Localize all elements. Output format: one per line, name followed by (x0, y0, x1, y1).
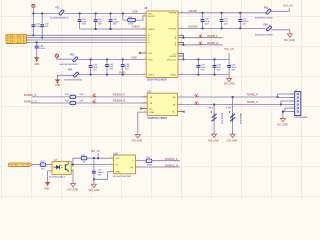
wire RS485C_N (31, 102, 142, 104)
svg-text:GND: GND (149, 112, 154, 114)
capacitor C52 (238, 13, 249, 29)
junction C51 (221, 12, 223, 14)
svg-text:ISOW7841DWER: ISOW7841DWER (147, 79, 167, 82)
wire VISOIN bus (178, 12, 266, 14)
differential pair mark N (left) (93, 100, 97, 104)
wire FB5 to ISO_VS (271, 8, 289, 12)
svg-text:485M1_TX_EN: 485M1_TX_EN (10, 165, 30, 167)
resistor R12 (40, 161, 46, 170)
svg-text:RS485A_P: RS485A_P (113, 94, 126, 97)
junction C52 (239, 12, 241, 14)
resistor R16 branch wire (123, 14, 146, 21)
differential pair mark P (left) (93, 93, 97, 97)
svg-text:50V: 50V (98, 175, 102, 177)
svg-text:GND1: GND1 (148, 75, 155, 77)
wire opto collector (71, 158, 114, 165)
svg-text:4: 4 (144, 58, 145, 60)
junction GISOIN C50 (202, 28, 204, 30)
differential pair mark N (199, 41, 203, 45)
junction GNDIO C42 (95, 28, 97, 30)
svg-text:SN65HVD1785DR: SN65HVD1785DR (147, 117, 167, 120)
capacitor C44 (108, 14, 119, 30)
svg-text:U9: U9 (147, 89, 151, 93)
wire N fanout to pins 3,4 (280, 101, 295, 105)
svg-text:2: 2 (144, 14, 145, 16)
svg-text:ISO_GND: ISO_GND (284, 39, 295, 42)
junction C47 (198, 59, 200, 61)
optocoupler U7 body (49, 159, 71, 179)
svg-text:ISO_VS: ISO_VS (283, 4, 293, 8)
svg-text:TVS2: TVS2 (226, 108, 232, 110)
svg-text:RS485C_P: RS485C_P (165, 158, 178, 161)
capacitor C40 (78, 14, 88, 30)
capacitor C50 (200, 13, 210, 29)
differential pair mark P (right) (195, 94, 199, 98)
svg-text:NC: NC (130, 167, 134, 169)
svg-text:5: 5 (111, 157, 112, 159)
junction R16 branch (122, 13, 124, 15)
junction ISO_VS riser (97, 157, 99, 159)
wire RS485_N from U8 (183, 44, 222, 46)
svg-text:50V: 50V (224, 24, 228, 26)
wire to FB4 (58, 75, 74, 79)
svg-text:FB5: FB5 (264, 7, 269, 9)
junction at VDD stem (33, 13, 35, 15)
svg-text:SMBJ6.0CA: SMBJ6.0CA (239, 113, 242, 125)
svg-text:SMBJ6.0CA: SMBJ6.0CA (221, 113, 224, 125)
svg-text:VISOOUT: VISOOUT (166, 59, 177, 61)
ferrite bead FB4 (64, 70, 82, 82)
resistor R14 (65, 100, 84, 104)
svg-text:ISO_GND: ISO_GND (208, 139, 219, 142)
svg-text:50V: 50V (98, 24, 102, 26)
svg-text:BLM18KG601SN1D: BLM18KG601SN1D (255, 34, 273, 36)
U8 right pin names (166, 13, 177, 77)
ground ISO_GND (top right) (284, 34, 295, 42)
svg-text:25V: 25V (217, 69, 221, 71)
wire U10 GND to ISO_GND (94, 172, 114, 180)
svg-text:GISOIN: GISOIN (188, 25, 197, 29)
svg-text:FB1: FB1 (55, 7, 60, 9)
svg-text:ISO_GND: ISO_GND (89, 189, 100, 192)
wire GND pins 5,6 to ISO_GND (277, 108, 295, 126)
driver U10 body (113, 152, 136, 178)
svg-text:50V: 50V (243, 24, 247, 26)
junction GND2 C47 (198, 74, 200, 76)
opto LED (54, 165, 63, 169)
U9 right pin NC with no-connect (178, 111, 185, 113)
junction C46 (122, 59, 124, 61)
wire VDD bus left (33, 13, 59, 15)
svg-text:10R: 10R (79, 100, 83, 102)
U10 pin names (115, 158, 120, 173)
opto cathode wire to GND (48, 171, 52, 182)
ferrite bead FB2 (60, 55, 78, 66)
capacitor C47 (196, 59, 206, 74)
junction C50 (202, 12, 204, 14)
wire VDD bus (mid) (78, 58, 146, 60)
wire U10 output (136, 160, 147, 162)
ferrite bead FB5 (255, 7, 273, 19)
capacitor C33 (35, 42, 46, 57)
ground ISO_GND (U9) (132, 135, 143, 143)
wire GISOIN bus (178, 27, 265, 29)
resistor R13 (65, 94, 84, 98)
svg-text:RS485_P: RS485_P (247, 94, 258, 97)
svg-text:GNDIO: GNDIO (132, 26, 140, 29)
capacitor C32 (40, 14, 49, 39)
junction GISOIN C51 (221, 28, 223, 30)
svg-text:50V: 50V (113, 24, 117, 26)
svg-text:10K0: 10K0 (128, 24, 134, 26)
capacitor C48 (212, 59, 221, 74)
ferrite bead FB1 (50, 7, 68, 19)
junction row4 C33 (36, 42, 38, 44)
svg-text:U10: U10 (114, 152, 119, 155)
differential pair mark N (right) (195, 101, 199, 105)
svg-text:ISO_GND: ISO_GND (224, 82, 235, 85)
svg-text:BLM18KG601SN1D: BLM18KG601SN1D (60, 64, 78, 66)
svg-text:BLM18KG601SN1D: BLM18KG601SN1D (50, 17, 68, 19)
junction GND C45 (106, 74, 108, 76)
junction C40 (79, 13, 81, 15)
connector J2 body (295, 90, 308, 119)
wire ISO_VS riser (97, 153, 99, 158)
svg-text:2: 2 (111, 170, 112, 172)
wire opto emitter to ISO_GND (67, 170, 78, 191)
wire VDD bus right (64, 13, 146, 15)
capacitor C51 (220, 13, 229, 29)
svg-text:GISOIN: GISOIN (169, 28, 177, 30)
svg-text:GND: GND (55, 84, 61, 87)
svg-text:1: 1 (111, 163, 112, 165)
U8 pin numbers (144, 11, 183, 75)
U8 pin stub OUT with no-connect (139, 52, 146, 54)
junction C45 (106, 59, 108, 61)
U8 right pins Z/B joined (178, 42, 184, 45)
U9 pin numbers (144, 95, 181, 112)
wire R17 to net label (152, 160, 180, 162)
wire port row2 (26, 37, 146, 39)
U8 pin stub GNDIO (141, 28, 147, 30)
wire port row3 (26, 39, 146, 41)
svg-text:RS485C_N: RS485C_N (165, 164, 178, 167)
U8 left pin names (148, 13, 156, 76)
wire GND2 bus (178, 74, 229, 76)
U9 pin stub TB (142, 102, 148, 104)
resistor R17 (146, 157, 152, 166)
wire R15 to U10 (87, 157, 114, 159)
junction GISOIN C52 (239, 28, 241, 30)
wire RS485_N to connector (178, 104, 281, 106)
U9 pin GND wire to ISO_GND (138, 112, 147, 134)
svg-text:ISO_GND: ISO_GND (277, 124, 288, 127)
svg-text:OUT: OUT (148, 53, 153, 55)
svg-text:EL357N(C)(TA)-G: EL357N(C)(TA)-G (49, 176, 66, 179)
junction ISO_GND node (93, 178, 95, 180)
svg-text:RS485A_N: RS485A_N (113, 100, 126, 103)
wire U10 pin3 (136, 166, 181, 168)
svg-text:ISO_VS: ISO_VS (224, 47, 234, 51)
svg-text:ISO_GND: ISO_GND (227, 139, 238, 142)
U9 pin names (149, 96, 154, 114)
svg-text:RS485_P: RS485_P (207, 34, 218, 38)
svg-text:GND: GND (34, 63, 40, 66)
svg-text:50V: 50V (109, 69, 113, 71)
op-amp U8 body (144, 6, 178, 81)
transceiver U9 body (147, 89, 177, 120)
svg-text:25V: 25V (82, 24, 86, 26)
junction C48 (214, 59, 216, 61)
junction GND2 C48 (214, 74, 216, 76)
svg-text:FB4: FB4 (68, 70, 73, 72)
svg-text:ISO_GND: ISO_GND (132, 139, 143, 142)
capacitor C46 (121, 59, 131, 74)
svg-text:485M1_GND_A: 485M1_GND_A (7, 41, 25, 44)
wire VDD stem (32, 7, 34, 13)
ground ISO_GND (below C49) (224, 75, 235, 86)
svg-text:U8: U8 (144, 6, 148, 10)
svg-text:MODE: MODE (170, 56, 177, 58)
resistor R15 (81, 155, 87, 164)
junction C44 (110, 13, 112, 15)
svg-text:8: 8 (144, 73, 145, 75)
ground GND (opto) (44, 182, 50, 191)
power port VDD (FB2 row) (55, 54, 58, 57)
svg-text:ISO_VS: ISO_VS (91, 150, 100, 153)
TVS D1 (207, 104, 223, 143)
svg-text:25V: 25V (205, 24, 209, 26)
wire RS485C_P (32, 96, 142, 98)
svg-text:GNDIO: GNDIO (148, 29, 155, 31)
svg-text:VDD: VDD (148, 59, 153, 61)
wire to FB2 (57, 57, 72, 59)
svg-text:VDD: VDD (132, 9, 138, 13)
wire GNDIO bus (80, 28, 141, 30)
wire GND bus (mid) (79, 74, 146, 76)
junction GNDIO C44 (110, 28, 112, 30)
svg-text:25V: 25V (93, 70, 97, 72)
svg-text:BLM18KG601SN1D: BLM18KG601SN1D (64, 79, 82, 81)
svg-text:TVS1: TVS1 (207, 108, 213, 110)
U8 right pins D+/MODE joined to VISOOUT (178, 54, 184, 61)
wire FB6 to ISO_GND (271, 30, 289, 34)
port 485M_TX_EN (8, 163, 32, 167)
svg-text:FB2: FB2 (70, 55, 75, 57)
svg-text:50V: 50V (125, 69, 129, 71)
ferrite bead FB6 (255, 24, 273, 36)
svg-text:25V: 25V (232, 69, 236, 71)
svg-text:100nF: 100nF (39, 48, 46, 50)
svg-text:FB6: FB6 (263, 24, 268, 26)
ground GND (FB4 row) (55, 79, 61, 87)
wire port row4 (26, 41, 146, 43)
svg-text:GND: GND (115, 172, 120, 174)
wire R12 to opto (46, 164, 52, 166)
capacitor C31 (31, 14, 42, 37)
differential pair mark P (199, 34, 203, 38)
connector pin stubs (290, 94, 295, 112)
svg-text:GND2: GND2 (170, 75, 177, 77)
opto transistor (65, 162, 68, 172)
capacitor C43 (89, 59, 99, 74)
TVS D2 (226, 96, 242, 142)
port group 485M signals (6, 34, 28, 44)
junction C43 (90, 59, 92, 61)
svg-text:RS485_N: RS485_N (247, 101, 258, 104)
svg-text:49R9: 49R9 (147, 164, 153, 166)
svg-text:BLM18KG601SN1D: BLM18KG601SN1D (255, 17, 273, 19)
svg-text:3: 3 (144, 34, 145, 36)
svg-text:GND: GND (44, 188, 50, 191)
junction C53 (93, 157, 95, 159)
wire RS485_P to connector (178, 96, 278, 98)
svg-text:VCC: VCC (115, 158, 120, 160)
capacitor C42 (94, 14, 103, 30)
capacitor C45 (105, 59, 114, 74)
svg-text:PRC04104AW: PRC04104AW (295, 116, 308, 119)
svg-text:RS485_N: RS485_N (207, 41, 218, 45)
svg-text:10R: 10R (79, 94, 83, 96)
U10 pin numbers (111, 157, 139, 173)
U9 pin stub TA (142, 96, 148, 98)
ground ISO_GND (bottom) (89, 179, 100, 192)
svg-text:VISOIN: VISOIN (188, 9, 197, 13)
junction at C32 riser (41, 13, 43, 15)
svg-text:VISOIN: VISOIN (169, 13, 177, 15)
wire VISOOUT bus (178, 53, 229, 60)
U8 right pins Y/A joined (178, 35, 184, 38)
svg-text:10K: 10K (41, 168, 45, 170)
capacitor C49 (227, 59, 237, 74)
svg-text:ISOFLT: ISOFLT (148, 16, 156, 18)
ground GND (C33) (34, 57, 40, 66)
svg-text:NC: NC (172, 112, 176, 114)
wire port row1 (26, 34, 146, 36)
junction C42 (95, 13, 97, 15)
wire port to R12 (33, 164, 41, 166)
U9 pin stub NC with no-connect (140, 108, 147, 110)
wire P fanout to pins 1,2 (277, 94, 295, 98)
svg-text:VDD: VDD (131, 56, 137, 60)
capacitor C53 (92, 158, 105, 179)
svg-text:NC: NC (149, 108, 153, 110)
junction GND C46 (122, 74, 124, 76)
power port VDD (top-left) (32, 4, 35, 7)
svg-text:SN74LVC1G07DBV: SN74LVC1G07DBV (113, 176, 132, 178)
junction GND C43 (90, 74, 92, 76)
wire RS485_P from U8 (183, 37, 222, 39)
svg-text:ISO_GND: ISO_GND (67, 188, 78, 191)
resistor R16 (128, 17, 136, 26)
svg-text:50V: 50V (201, 69, 205, 71)
